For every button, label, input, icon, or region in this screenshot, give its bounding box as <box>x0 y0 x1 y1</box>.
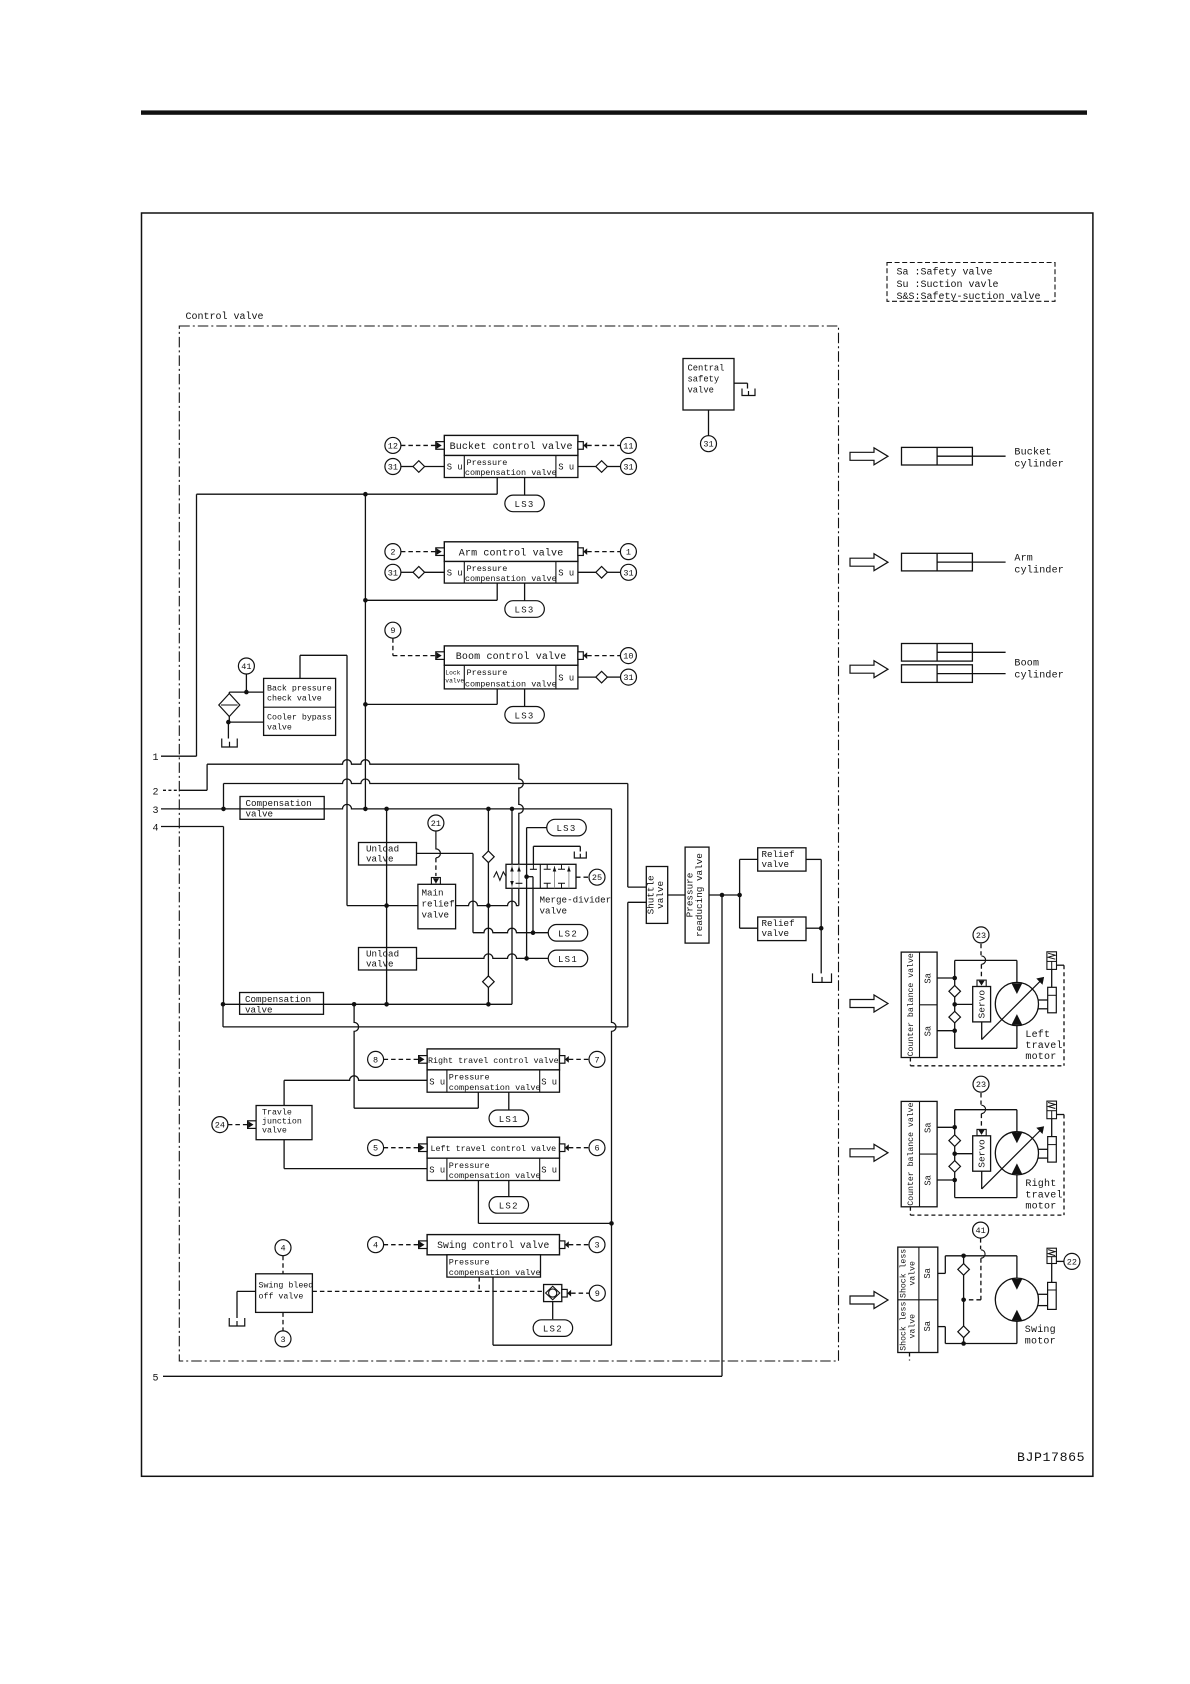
svg-text:3: 3 <box>280 1335 285 1345</box>
Left travel control valve box <box>427 1137 559 1158</box>
svg-text:41: 41 <box>975 1226 985 1236</box>
node boom bus junction <box>363 702 368 707</box>
port left Right travel control valve <box>419 1056 428 1064</box>
svg-text:Arm control valve: Arm control valve <box>459 547 564 559</box>
svg-text:Swing bleed: Swing bleed <box>259 1281 314 1291</box>
circle 31 arm left <box>385 564 401 580</box>
motor circle Left <box>995 982 1038 1025</box>
dashed bleed to 3 <box>282 1312 284 1331</box>
relief valve box 2 <box>758 917 806 941</box>
wire merge feed down to comp2 bus <box>511 809 513 864</box>
compensation valve box 1 <box>240 797 324 820</box>
svg-text:Pressure: Pressure <box>467 668 508 678</box>
svg-text:S u: S u <box>541 1166 557 1176</box>
check valve swing upper <box>958 1264 970 1276</box>
pilot dashed 7 <box>569 1058 589 1060</box>
LS3 label Boom <box>505 707 544 724</box>
wire swing feed bottom <box>493 1344 612 1346</box>
wire back pressure riser A <box>299 655 301 678</box>
svg-text:4: 4 <box>280 1244 285 1254</box>
svg-text:Right travel control valve: Right travel control valve <box>428 1056 559 1066</box>
svg-text:off valve: off valve <box>259 1292 304 1302</box>
LS1 merge <box>548 950 588 967</box>
svg-text:compensation valve: compensation valve <box>449 1268 541 1278</box>
node main relief bus junction C <box>384 903 389 908</box>
svg-text:relief: relief <box>422 899 455 910</box>
cartridge link Right <box>1051 1119 1053 1137</box>
swing shaft <box>1038 1293 1048 1295</box>
unload valve box 2 <box>359 948 417 971</box>
svg-text:Arm: Arm <box>1014 553 1033 564</box>
circle 41 back pressure <box>245 674 247 692</box>
wire right travel feed <box>354 1107 478 1109</box>
Boom control valve box <box>444 646 578 665</box>
wire left travel LS bus <box>478 1222 611 1224</box>
wire swing bottom bus <box>945 1343 1017 1345</box>
swing relief cartridge <box>1047 1248 1056 1263</box>
compensation valve box 2 <box>240 993 324 1015</box>
relief valve box 1 <box>758 848 806 871</box>
pilot dashed 23 Right <box>980 1093 982 1105</box>
svg-text:8: 8 <box>373 1055 378 1065</box>
arrow swing <box>850 1292 888 1309</box>
wire riser C <box>386 809 388 1004</box>
circle 9 boom pilot <box>385 622 401 638</box>
relief cartridge Left <box>1047 952 1057 970</box>
svg-text:9: 9 <box>390 626 395 636</box>
svg-text:4: 4 <box>373 1241 378 1251</box>
svg-text:LS2: LS2 <box>543 1325 563 1335</box>
pilot 21 to main relief <box>436 831 441 858</box>
LS3 label Bucket <box>505 495 544 512</box>
wire line4 feed <box>161 826 224 828</box>
wire comp2 bus <box>223 1003 512 1005</box>
port right check box <box>562 1289 567 1297</box>
svg-text:41: 41 <box>241 662 251 672</box>
shaft Right <box>1038 1148 1048 1150</box>
pilot dashed 6 <box>569 1147 589 1149</box>
svg-text:junction: junction <box>262 1116 302 1126</box>
check valve swing lower <box>958 1326 970 1338</box>
svg-text:Sa: Sa <box>924 973 934 984</box>
main relief valve box <box>418 884 456 929</box>
svg-text:6: 6 <box>594 1144 599 1154</box>
arrow Right travel <box>850 1144 888 1161</box>
circle 41 swing <box>973 1222 989 1238</box>
svg-text:S u: S u <box>558 463 574 473</box>
suction right boom <box>578 676 596 678</box>
pilot dashed 9 swing <box>571 1292 589 1294</box>
LS1 right travel <box>489 1110 529 1127</box>
circle 4 above bleed <box>275 1240 291 1256</box>
wire relief1 input <box>740 858 758 860</box>
svg-text:Bucket control valve: Bucket control valve <box>450 441 573 453</box>
bucket cylinder arrow <box>850 448 888 465</box>
LS2 merge <box>548 925 588 942</box>
svg-text:valve: valve <box>246 808 274 819</box>
node relief branch junction <box>737 893 742 898</box>
pressure reducing valve box <box>685 847 709 943</box>
svg-text:Merge-divider: Merge-divider <box>540 895 612 906</box>
svg-text:24: 24 <box>215 1121 225 1131</box>
svg-text:Right: Right <box>1025 1178 1056 1190</box>
node bucket bus junction <box>363 492 368 497</box>
node bus3 junction C <box>384 807 389 812</box>
bleed pilot dashed to check <box>312 1290 543 1292</box>
svg-text:S u: S u <box>447 569 463 579</box>
svg-text:Shock less: Shock less <box>899 1302 909 1351</box>
merge drain tank <box>574 852 586 859</box>
Arm control valve box <box>444 542 578 562</box>
pilot dashed 12 <box>401 444 436 446</box>
svg-text:25: 25 <box>592 873 602 883</box>
wire Sa upper Left <box>937 977 955 979</box>
svg-text:compensation valve: compensation valve <box>465 468 557 478</box>
wire unload2 output LS1 bus <box>417 954 549 959</box>
svg-text:1: 1 <box>626 548 631 558</box>
wire bus2 <box>224 779 628 784</box>
svg-text:4: 4 <box>153 824 159 835</box>
svg-text:LS1: LS1 <box>499 1115 519 1125</box>
servo link Left <box>981 1022 983 1040</box>
swing brake <box>1048 1282 1057 1309</box>
LS2 swing riser <box>552 1302 554 1320</box>
node check line comp2 end <box>486 1002 491 1007</box>
circle 9 swing <box>589 1285 605 1301</box>
svg-text:compensation valve: compensation valve <box>449 1083 541 1093</box>
svg-text:2: 2 <box>390 548 395 558</box>
dashed 4 to bleed <box>282 1256 284 1274</box>
svg-text:motor: motor <box>1025 1052 1056 1063</box>
svg-text:Main: Main <box>422 888 444 899</box>
svg-text:Compensation: Compensation <box>245 994 311 1005</box>
node LS1 bus junction <box>524 956 529 961</box>
wire LS2 bus <box>473 928 548 932</box>
node line4 comp2 junction <box>221 1002 226 1007</box>
svg-text:23: 23 <box>976 931 986 941</box>
svg-text:31: 31 <box>703 440 713 450</box>
wire shuttle input top <box>627 784 629 888</box>
merge-divider spring <box>494 872 506 881</box>
filter diamond <box>219 694 240 717</box>
circle 2 <box>385 544 401 560</box>
svg-text:LS3: LS3 <box>515 711 535 721</box>
svg-text:Back pressure: Back pressure <box>267 684 332 694</box>
svg-text:compensation valve: compensation valve <box>465 574 557 584</box>
LS3 label Arm <box>505 601 544 618</box>
wire unload1 output to LS2 bus <box>417 852 474 854</box>
circle 3 below bleed <box>275 1331 291 1347</box>
svg-text:cylinder: cylinder <box>1014 565 1064 577</box>
Boom cylinder cylinder <box>902 644 973 662</box>
wire relief2 input <box>740 927 758 929</box>
svg-text:Travle: Travle <box>262 1107 292 1117</box>
wire line3 bus3 <box>161 804 612 808</box>
wire Sa swing upper <box>938 1272 946 1274</box>
circle 5 <box>368 1140 384 1156</box>
wire bucket bus <box>197 493 498 495</box>
svg-text:LS2: LS2 <box>499 1201 519 1211</box>
node travel LS bus junction <box>609 1221 614 1226</box>
svg-text:motor: motor <box>1025 1202 1056 1213</box>
relief cartridge Right <box>1047 1101 1057 1119</box>
merge-divider valve <box>506 864 576 888</box>
svg-text:Swing: Swing <box>1025 1324 1056 1336</box>
wire Sa lower Left <box>937 1030 955 1032</box>
arrow Left travel <box>850 995 888 1012</box>
circle 7 <box>589 1051 605 1067</box>
Arm cylinder cylinder <box>902 553 973 571</box>
wire check line left <box>487 809 489 1004</box>
svg-text:S u: S u <box>541 1077 557 1087</box>
shaft Left <box>1038 999 1048 1001</box>
svg-text:valve: valve <box>688 386 714 396</box>
wire travel junction bottom link <box>283 1140 285 1169</box>
svg-text:Pressure: Pressure <box>467 564 508 574</box>
node arm bus junction <box>363 598 368 603</box>
svg-text:Cooler bypass: Cooler bypass <box>267 713 332 723</box>
servo Right <box>977 1129 986 1135</box>
circle 12 <box>385 437 401 453</box>
LS2 left travel <box>489 1197 529 1214</box>
wire Sa swing lower <box>938 1326 946 1328</box>
pilot dashed 2 <box>401 551 436 553</box>
port left arm <box>436 548 445 556</box>
circle 23 Left travel <box>973 927 989 943</box>
check valve bottom Left <box>949 1011 961 1023</box>
circle 31 bucket right <box>621 459 637 475</box>
wire line4 loop to shuttle <box>222 1004 224 1027</box>
svg-text:compensation valve: compensation valve <box>465 680 557 690</box>
wire arm bus <box>365 599 497 601</box>
LS1 riser right travel <box>508 1092 510 1110</box>
suction right bucket <box>578 466 596 468</box>
wire shuttle input bottom <box>628 901 647 903</box>
svg-text:Su :Suction vavle: Su :Suction vavle <box>897 279 999 291</box>
svg-text:valve: valve <box>422 910 450 921</box>
svg-text:Pressure: Pressure <box>449 1073 490 1083</box>
node line5 riser junction <box>720 893 725 898</box>
svg-text:Pressure: Pressure <box>449 1257 490 1267</box>
circle 25 <box>589 869 605 885</box>
svg-text:Left travel control valve: Left travel control valve <box>430 1144 556 1154</box>
wire Sa upper Right <box>937 1126 955 1128</box>
svg-text:31: 31 <box>623 568 633 578</box>
svg-text:valve: valve <box>540 906 568 917</box>
svg-text:31: 31 <box>623 463 633 473</box>
circle 6 <box>589 1140 605 1156</box>
svg-text:cylinder: cylinder <box>1014 459 1064 471</box>
circle 31 arm right <box>621 564 637 580</box>
wire merge to LS2 <box>527 876 533 878</box>
unload valve box 1 <box>359 843 417 866</box>
svg-text:Shock less: Shock less <box>899 1249 909 1298</box>
Arm LS riser <box>524 583 526 601</box>
node servo tap Right <box>952 1151 957 1156</box>
svg-text:motor: motor <box>1025 1337 1056 1348</box>
svg-text:3: 3 <box>594 1241 599 1251</box>
svg-text:1: 1 <box>153 753 159 764</box>
relief tank <box>813 973 832 982</box>
node riser B end on bus3 <box>363 807 368 812</box>
wire filter bottom <box>228 717 230 723</box>
svg-text:2: 2 <box>153 787 159 798</box>
port left swing <box>419 1241 428 1249</box>
servo link Right <box>981 1171 983 1189</box>
svg-text:Swing control valve: Swing control valve <box>437 1240 549 1251</box>
circle 31 boom right <box>621 669 637 685</box>
svg-text:valve: valve <box>262 1125 287 1135</box>
wire bus3 descent <box>612 809 617 1345</box>
svg-text:Sa :Safety valve: Sa :Safety valve <box>897 267 993 279</box>
port right Right travel control valve <box>560 1056 565 1064</box>
suction right arm <box>578 571 596 573</box>
pilot dashed 3 <box>569 1244 589 1246</box>
shock less valve box <box>898 1247 938 1352</box>
circle 1 <box>620 544 636 560</box>
node comp2 junction riser D <box>352 1002 357 1007</box>
svg-text:Control valve: Control valve <box>186 311 264 323</box>
wire travel junction top link <box>283 1080 285 1105</box>
servo Left <box>977 980 986 986</box>
wire swing check line <box>963 1256 965 1344</box>
node filter junction bottom <box>226 720 231 725</box>
circle 10 <box>620 648 636 664</box>
svg-text:Compensation: Compensation <box>246 798 312 809</box>
counter balance valve Right <box>901 1101 937 1206</box>
circle 31 central <box>701 436 717 452</box>
port right boom <box>578 652 583 660</box>
svg-text:S&S:Safety-suction valve: S&S:Safety-suction valve <box>897 291 1041 303</box>
node main relief bus junction check <box>486 903 491 908</box>
swing pressure compensation row <box>447 1255 541 1277</box>
pilot dashed 9 <box>392 638 394 655</box>
dashed enclosure Right <box>1063 1115 1065 1216</box>
circle 11 <box>620 437 636 453</box>
svg-text:31: 31 <box>623 673 633 683</box>
svg-text:travel: travel <box>1025 1189 1062 1201</box>
svg-text:12: 12 <box>388 441 398 451</box>
svg-text:7: 7 <box>594 1055 599 1065</box>
Bucket pressure compensation valve row <box>444 456 578 478</box>
cartridge link Left <box>1051 969 1053 987</box>
Boom LS riser <box>524 689 526 707</box>
brake Right <box>1048 1137 1057 1163</box>
motor loop frame Right <box>955 1109 1017 1111</box>
node riser C end <box>384 1002 389 1007</box>
svg-text:Counter balance valve: Counter balance valve <box>906 953 916 1056</box>
svg-text:Boom control valve: Boom control valve <box>456 651 567 663</box>
svg-text:Pressure: Pressure <box>467 458 508 468</box>
wire main relief bus <box>347 901 519 906</box>
swing bleed off valve box <box>256 1274 313 1313</box>
svg-text:compensation valve: compensation valve <box>449 1171 541 1181</box>
wire merge drain <box>532 846 534 864</box>
circle 4 swing <box>368 1237 384 1253</box>
wire to circle 31 <box>708 410 710 436</box>
svg-text:Lock: Lock <box>445 670 460 677</box>
LS2 riser left travel <box>508 1181 510 1197</box>
wire riser D to travel bus <box>354 1004 359 1108</box>
svg-text:valve: valve <box>267 723 292 733</box>
wire line1 P1 feed <box>161 755 197 757</box>
svg-text:Bucket: Bucket <box>1014 447 1051 459</box>
port right bucket <box>578 442 583 450</box>
wire filter top <box>229 691 263 693</box>
travle junction valve box <box>256 1106 312 1140</box>
svg-text:Central: Central <box>688 364 725 374</box>
pilot dashed 5 <box>384 1147 419 1149</box>
swing cartridge link <box>1051 1264 1053 1283</box>
check valve top Left <box>949 986 961 998</box>
svg-text:22: 22 <box>1067 1257 1077 1267</box>
swing motor circle <box>995 1278 1038 1321</box>
svg-text:31: 31 <box>388 463 398 473</box>
pilot dashed 24 <box>228 1124 250 1126</box>
node merge internal <box>524 874 529 879</box>
svg-text:valve: valve <box>908 1261 918 1286</box>
wire riser B to lower buses <box>364 494 366 809</box>
Right travel control valve pressure compensation row <box>427 1070 559 1092</box>
Left travel control valve pressure compensation row <box>427 1158 559 1180</box>
pilot dashed 10 <box>587 655 620 657</box>
svg-text:Left: Left <box>1025 1029 1050 1041</box>
port left Left travel control valve <box>419 1144 428 1152</box>
wire bus1 <box>207 760 519 765</box>
svg-text:BJP17865: BJP17865 <box>1017 1450 1085 1465</box>
merge-divider internal junction <box>526 864 528 876</box>
svg-text:safety: safety <box>688 375 720 385</box>
node servo tap Left <box>952 1002 957 1007</box>
LS2 swing <box>533 1320 573 1337</box>
wire shuttle output <box>668 894 685 896</box>
wire bus1 drop into merge-divider <box>519 764 524 864</box>
svg-text:Pressure: Pressure <box>449 1161 490 1171</box>
svg-text:Sa: Sa <box>924 1026 934 1037</box>
svg-text:10: 10 <box>623 652 633 662</box>
wire pressure reducing output <box>709 894 740 896</box>
circle 8 <box>368 1051 384 1067</box>
back pressure tank <box>222 739 238 748</box>
circle 21 <box>428 815 444 831</box>
svg-text:31: 31 <box>388 568 398 578</box>
node bus3 junction valve feed <box>510 807 515 812</box>
svg-text:23: 23 <box>976 1080 986 1090</box>
svg-text:cylinder: cylinder <box>1014 670 1064 682</box>
wire merge LS3 tap <box>527 827 547 829</box>
wire relief branch vertical <box>739 859 741 928</box>
suction left bucket <box>401 466 413 468</box>
port right arm <box>578 548 583 556</box>
svg-text:valve: valve <box>245 1004 273 1015</box>
check valve top Right <box>949 1135 961 1147</box>
back pressure check valve box <box>264 678 336 735</box>
svg-text:Servo: Servo <box>977 990 988 1019</box>
svg-text:Sa: Sa <box>924 1175 934 1186</box>
svg-text:S u: S u <box>447 463 463 473</box>
node swing pilot <box>961 1298 966 1303</box>
shuttle valve box <box>646 867 667 924</box>
svg-text:S u: S u <box>429 1077 445 1087</box>
pilot dashed 4 <box>384 1244 419 1246</box>
svg-text:Counter balance valve: Counter balance valve <box>906 1102 916 1205</box>
svg-text:11: 11 <box>623 441 633 451</box>
pilot dashed 1 <box>587 551 620 553</box>
motor loop frame Left <box>955 959 1017 961</box>
svg-text:5: 5 <box>153 1373 159 1384</box>
legend box <box>887 263 1055 302</box>
pilot dashed 41 <box>980 1238 982 1249</box>
